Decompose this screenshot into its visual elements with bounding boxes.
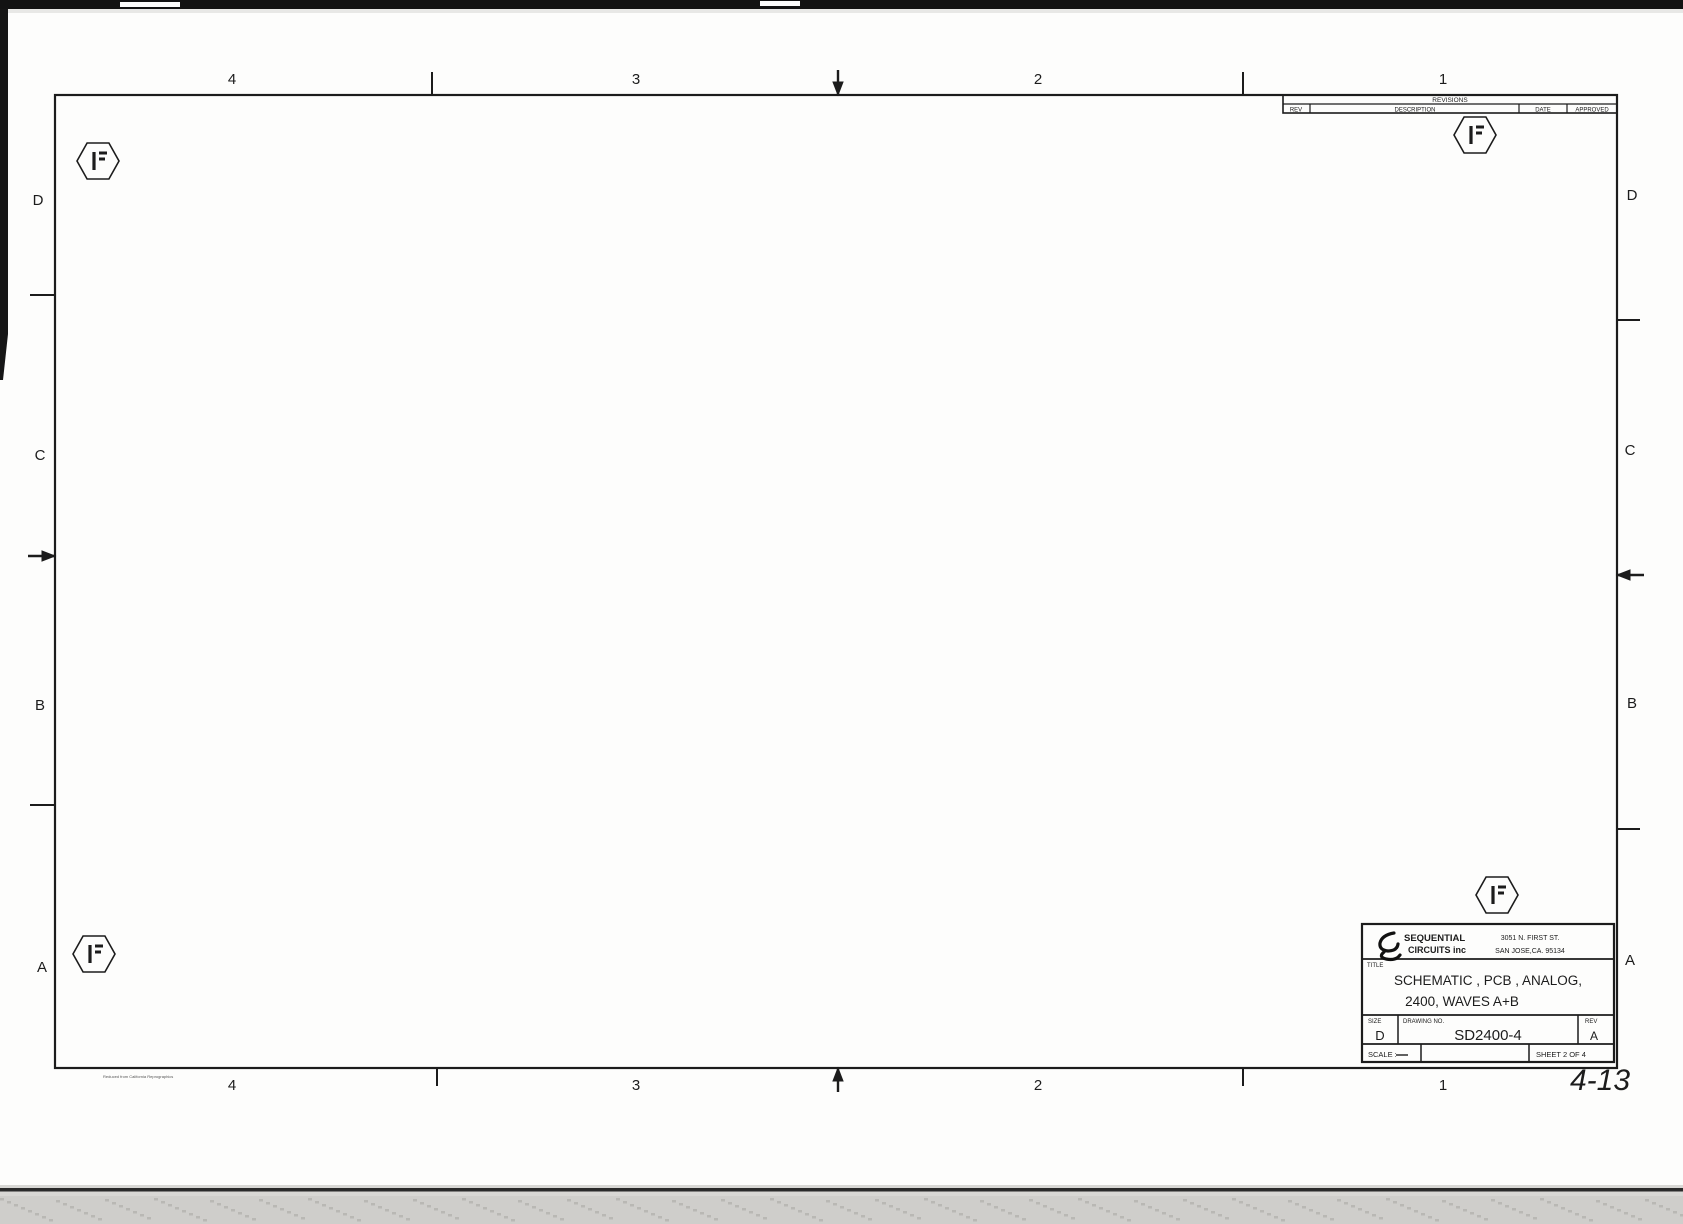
zone tick marks left border — [30, 294, 55, 296]
flag symbol F top-left — [77, 143, 119, 179]
svg-text:SD2400-4: SD2400-4 — [1454, 1027, 1522, 1044]
zone center arrow left — [28, 555, 55, 557]
svg-text:REVISIONS: REVISIONS — [1432, 97, 1468, 104]
svg-text:3: 3 — [632, 71, 640, 88]
flag symbol F bottom-right — [1476, 877, 1518, 913]
svg-text:REV: REV — [1290, 108, 1302, 114]
zone center arrow bottom — [837, 1068, 839, 1092]
svg-text:TITLE: TITLE — [1367, 963, 1383, 969]
sequential circuits logo — [1380, 933, 1400, 960]
zone tick marks top border — [431, 72, 433, 95]
svg-text:A: A — [1625, 952, 1635, 969]
svg-text:C: C — [1625, 442, 1636, 459]
flag symbol F top-right — [1454, 117, 1496, 153]
revisions table — [1283, 95, 1617, 113]
svg-text:4-13: 4-13 — [1570, 1064, 1630, 1097]
svg-text:DRAWING NO.: DRAWING NO. — [1403, 1019, 1444, 1025]
svg-text:1: 1 — [1439, 1077, 1447, 1094]
scan artifact bottom band — [0, 1185, 1683, 1224]
svg-text:DATE: DATE — [1535, 108, 1551, 114]
svg-text:3: 3 — [632, 1077, 640, 1094]
svg-text:REV: REV — [1585, 1019, 1597, 1025]
svg-text:1: 1 — [1439, 71, 1447, 88]
zone tick marks bottom border — [436, 1068, 438, 1086]
zone center arrow top — [837, 70, 839, 95]
svg-text:B: B — [35, 697, 45, 714]
svg-text:SAN JOSE,CA. 95134: SAN JOSE,CA. 95134 — [1495, 948, 1565, 955]
scan artifact left edge strip — [0, 9, 8, 334]
svg-text:A: A — [1590, 1029, 1598, 1043]
svg-text:CIRCUITS inc: CIRCUITS inc — [1408, 945, 1466, 955]
zone center arrow right — [1617, 574, 1644, 576]
scan artifact top edge strip — [0, 0, 1683, 9]
svg-text:2400, WAVES A+B: 2400, WAVES A+B — [1405, 994, 1519, 1009]
svg-text:SIZE: SIZE — [1368, 1019, 1381, 1025]
svg-text:D: D — [33, 192, 44, 209]
svg-text:SCALE :: SCALE : — [1368, 1050, 1397, 1059]
svg-text:2: 2 — [1034, 1077, 1042, 1094]
zone tick marks right border — [1617, 319, 1640, 321]
svg-text:D: D — [1627, 187, 1638, 204]
svg-text:4: 4 — [228, 1077, 236, 1094]
flag symbol F bottom-left — [73, 936, 115, 972]
svg-text:SCHEMATIC , PCB , ANALOG,: SCHEMATIC , PCB , ANALOG, — [1394, 973, 1582, 988]
svg-text:APPROVED: APPROVED — [1575, 108, 1609, 114]
title block — [1362, 924, 1614, 1062]
svg-text:Reduced from California Reprog: Reduced from California Reprographics — [103, 1074, 173, 1079]
svg-text:DESCRIPTION: DESCRIPTION — [1394, 108, 1435, 114]
svg-text:D: D — [1375, 1028, 1384, 1043]
svg-text:4: 4 — [228, 71, 236, 88]
svg-text:A: A — [37, 959, 47, 976]
svg-text:B: B — [1627, 695, 1637, 712]
svg-text:2: 2 — [1034, 71, 1042, 88]
sheet border frame — [55, 95, 1617, 1068]
svg-text:3051 N. FIRST ST.: 3051 N. FIRST ST. — [1501, 935, 1560, 942]
svg-text:SHEET 2 OF 4: SHEET 2 OF 4 — [1536, 1050, 1586, 1059]
svg-text:C: C — [35, 447, 46, 464]
svg-text:SEQUENTIAL: SEQUENTIAL — [1404, 933, 1465, 944]
